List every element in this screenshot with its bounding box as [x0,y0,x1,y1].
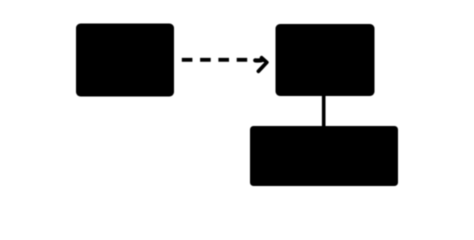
wire (arrow tail dash) [255,58,262,63]
box A (top-left block) [76,24,174,97]
box B (top-right block) [276,24,375,96]
arrowhead [258,58,266,72]
wire (dashed arrow shaft A to B) [182,58,247,62]
wire (vertical connector B to C) [322,95,326,127]
box C (bottom block) [250,126,398,186]
